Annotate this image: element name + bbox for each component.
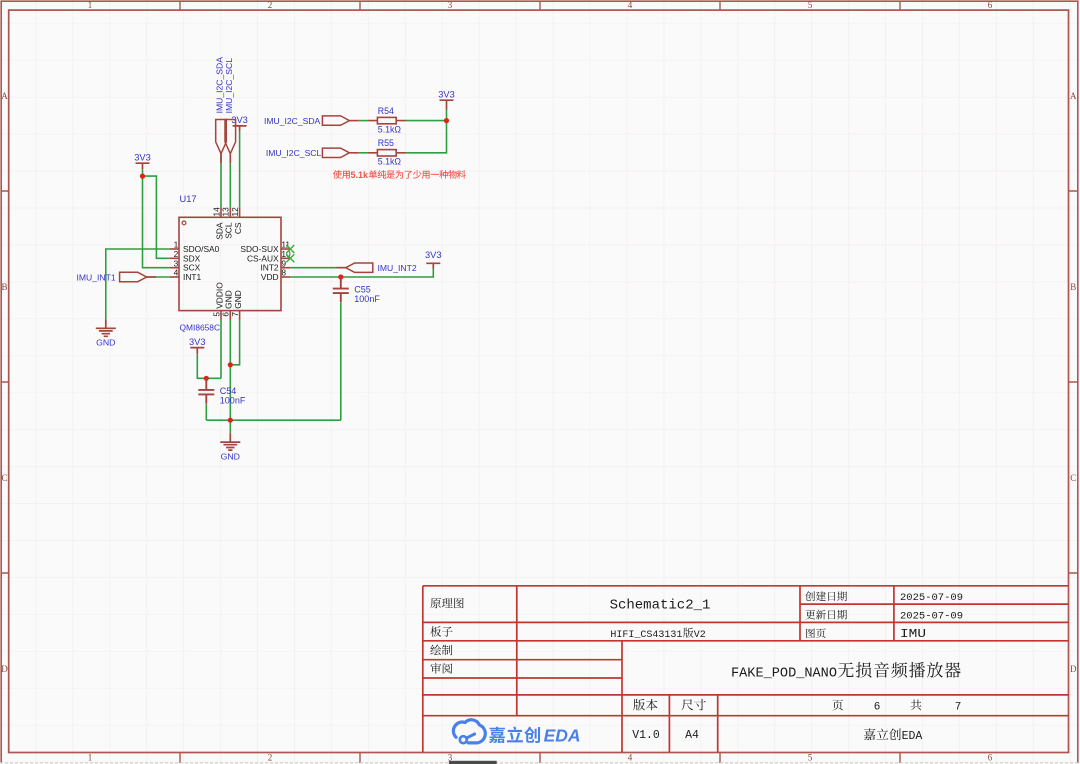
title block grid <box>423 586 1069 753</box>
resistor R54 <box>368 106 405 134</box>
wire pin5 VDDIO down <box>220 320 222 378</box>
title block label 图页 <box>806 628 825 638</box>
wire 3V3D to junction <box>446 110 448 121</box>
U17 pin 11 SDO-SUX <box>240 240 290 254</box>
U17 pin 1 SDO/SA0 <box>170 240 220 254</box>
wire R55 left <box>359 152 368 154</box>
svg-text:B: B <box>1070 282 1076 292</box>
canvas bottom edge <box>0 762 1080 764</box>
power flag 3V3 D <box>438 89 455 109</box>
svg-text:INT1: INT1 <box>183 272 201 282</box>
svg-text:12: 12 <box>230 207 240 217</box>
svg-text:6: 6 <box>988 0 993 10</box>
svg-text:B: B <box>1 282 7 292</box>
net port IMU_I2C_SDA (vertical) <box>215 57 227 163</box>
svg-text:GND: GND <box>96 338 115 348</box>
svg-text:1: 1 <box>88 753 93 763</box>
U17 pin 10 CS-AUX <box>247 249 291 263</box>
wire 3V3A to pin3 SCX <box>143 169 170 268</box>
svg-text:2025-07-09: 2025-07-09 <box>900 611 963 623</box>
resistor R55 <box>368 138 405 166</box>
wire pin6 GND down <box>229 320 231 420</box>
junction 3V3A <box>140 174 145 179</box>
svg-text:CS: CS <box>233 222 243 234</box>
wire rail to GND B <box>229 420 231 433</box>
svg-text:A4: A4 <box>685 729 699 742</box>
svg-text:FAKE_POD_NANO: FAKE_POD_NANO <box>731 666 837 681</box>
svg-text:1: 1 <box>88 0 93 10</box>
svg-text:A: A <box>1070 91 1077 101</box>
U17 pin 7 GND <box>230 290 243 320</box>
svg-text:5.1kΩ: 5.1kΩ <box>378 124 402 134</box>
wire R55 right to junction riser <box>406 121 447 153</box>
junction pin6/pin7 <box>228 362 233 367</box>
svg-text:5: 5 <box>808 0 813 10</box>
svg-text:3V3: 3V3 <box>134 152 151 162</box>
wire IMU_I2C_SDA port to pin14 <box>220 154 222 208</box>
title block label 版本 <box>633 699 657 711</box>
svg-text:EDA: EDA <box>544 726 581 746</box>
svg-text:IMU_INT1: IMU_INT1 <box>76 272 115 282</box>
wire C54 bottom <box>205 404 207 420</box>
svg-text:3V3: 3V3 <box>425 250 442 260</box>
svg-text:R54: R54 <box>378 106 394 116</box>
U17 pin 9 INT2 <box>260 258 290 272</box>
svg-text:V2: V2 <box>694 630 706 641</box>
svg-text:100nF: 100nF <box>354 294 380 304</box>
net port IMU_INT2 <box>336 263 416 273</box>
svg-text:C54: C54 <box>220 386 237 396</box>
wire IMU_I2C_SCL port to pin13 <box>229 154 231 208</box>
power flag 3V3 A <box>134 152 151 169</box>
title block label 尺寸 <box>682 699 706 711</box>
svg-text:7: 7 <box>230 312 240 317</box>
ground A <box>96 319 116 347</box>
junction 3V3E/C54 <box>204 376 209 381</box>
wire pin7 GND down-left <box>230 320 239 365</box>
U17 pin 3 SCX <box>170 258 201 272</box>
svg-text:8: 8 <box>281 268 286 278</box>
title block label 审阅 <box>430 663 452 674</box>
ground B <box>220 433 240 461</box>
svg-text:IMU_INT2: IMU_INT2 <box>378 263 417 273</box>
JLCEDA logo text <box>489 726 581 746</box>
svg-text:4: 4 <box>628 753 633 763</box>
junction R54/R55 pullup <box>444 118 449 123</box>
U17 pin 5 VDDIO <box>211 282 224 320</box>
capacitor C55 <box>333 277 381 304</box>
wire IMU_INT1 port to pin4 INT1 <box>147 276 170 278</box>
net port IMU_I2C_SDA <box>264 116 359 126</box>
svg-text:IMU_I2C_SCL: IMU_I2C_SCL <box>266 148 322 158</box>
net port IMU_I2C_SCL <box>266 148 359 158</box>
svg-text:V1.0: V1.0 <box>632 729 660 742</box>
svg-text:7: 7 <box>955 701 962 713</box>
U17 pin 8 VDD <box>261 268 290 282</box>
svg-text:VDD: VDD <box>261 272 279 282</box>
svg-text:3: 3 <box>448 0 453 10</box>
svg-text:R55: R55 <box>378 138 394 148</box>
wire pin9 INT2 to IMU_INT2 port <box>290 267 346 269</box>
wire R54 left <box>359 120 368 122</box>
svg-text:IMU_I2C_SCL: IMU_I2C_SCL <box>224 58 234 114</box>
U17 pin 4 INT1 <box>170 268 202 282</box>
svg-text:3V3: 3V3 <box>189 337 206 347</box>
IC U17 QMI8658C body <box>179 217 281 310</box>
svg-text:4: 4 <box>174 268 179 278</box>
svg-text:IMU_I2C_SDA: IMU_I2C_SDA <box>264 116 321 126</box>
net port IMU_INT1 <box>76 272 156 282</box>
svg-text:QMI8658C: QMI8658C <box>180 323 221 333</box>
wire 3V3A to pin2 SDX <box>143 176 170 258</box>
svg-text:2025-07-09: 2025-07-09 <box>900 592 963 604</box>
svg-text:5.1k: 5.1k <box>351 170 370 180</box>
scrollbar thumb <box>449 761 497 764</box>
svg-text:D: D <box>1 664 8 674</box>
power flag 3V3 B <box>231 115 248 131</box>
board name HIFI_CS43131版V2 <box>610 628 705 641</box>
svg-text:HIFI_CS43131: HIFI_CS43131 <box>610 630 682 641</box>
wire pin8 VDD to 3V3C <box>290 269 433 278</box>
wire C55 to bottom rail <box>340 303 342 421</box>
capacitor C54 <box>198 378 246 405</box>
comment text (red) <box>333 170 466 180</box>
power flag 3V3 E <box>189 337 206 354</box>
power flag 3V3 C <box>425 250 442 269</box>
page numbers 页 6 共 7 <box>832 700 961 714</box>
svg-text:3V3: 3V3 <box>438 89 455 99</box>
svg-text:5.1kΩ: 5.1kΩ <box>378 157 402 167</box>
svg-text:C: C <box>1070 473 1076 483</box>
svg-text:4: 4 <box>628 0 633 10</box>
svg-text:C55: C55 <box>354 285 371 295</box>
svg-text:D: D <box>1070 664 1077 674</box>
svg-text:U17: U17 <box>180 194 197 204</box>
project title FAKE_POD_NANO... <box>731 662 961 681</box>
title block label 原理图 <box>430 598 463 608</box>
title block label 更新日期 <box>805 610 847 620</box>
title block label 创建日期 <box>805 591 847 601</box>
svg-text:6: 6 <box>874 701 881 713</box>
title block label 绘制 <box>430 645 452 656</box>
svg-text:2: 2 <box>268 0 273 10</box>
U17 pin 12 CS <box>230 207 243 234</box>
svg-text:C: C <box>1 473 7 483</box>
svg-text:2: 2 <box>268 753 273 763</box>
wire pin1 SDO/SA0 to GND A <box>106 249 170 319</box>
svg-text:GND: GND <box>221 451 240 461</box>
U17 pin 6 GND <box>221 290 234 320</box>
svg-text:100nF: 100nF <box>220 396 246 406</box>
U17 pin 13 SCL <box>221 207 234 239</box>
wire 3V3E to C54 top <box>197 354 221 378</box>
wire 3V3B to pin12 CS <box>239 131 241 208</box>
no-connect flag <box>286 254 294 262</box>
U17 pin 2 SDX <box>170 249 201 263</box>
svg-text:A: A <box>1 91 8 101</box>
svg-text:EDA: EDA <box>902 730 923 743</box>
svg-text:5: 5 <box>808 753 813 763</box>
wire bottom ground rail <box>206 419 340 421</box>
svg-text:GND: GND <box>233 290 243 309</box>
junction VDD/C55 <box>338 274 343 279</box>
company 嘉立创EDA <box>864 728 923 743</box>
wire R54 right to junction <box>406 120 447 122</box>
junction rail/GND B <box>228 418 233 423</box>
JLCEDA logo cloud <box>453 720 485 743</box>
svg-text:IMU: IMU <box>900 628 926 641</box>
svg-text:6: 6 <box>988 753 993 763</box>
net port IMU_I2C_SCL (vertical) <box>224 58 236 163</box>
no-connect flag <box>286 245 294 253</box>
title block label 板子 <box>430 626 452 637</box>
svg-text:Schematic2_1: Schematic2_1 <box>610 598 711 614</box>
U17 pin 14 SDA <box>211 207 224 240</box>
